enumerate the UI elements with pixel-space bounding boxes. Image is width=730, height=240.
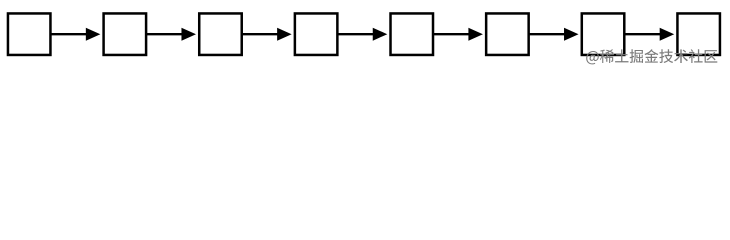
watermark glyph 术 [674, 49, 688, 63]
arrow 1 (box 1 to box 2) [51, 28, 101, 41]
box 3 [199, 13, 242, 55]
box 6 [486, 13, 529, 55]
watermark glyph 金 [644, 49, 658, 62]
box 7 [582, 13, 625, 55]
box 1 [8, 13, 51, 55]
arrow 5 (box 5 to box 6) [433, 28, 483, 41]
watermark glyph 土 [615, 49, 628, 62]
arrow 7 (box 7 to box 8) [625, 28, 675, 41]
watermark text "@稀土掘金技术社区" [586, 49, 717, 64]
arrow 2 (box 2 to box 3) [146, 28, 196, 41]
arrow 6 (box 6 to box 7) [529, 28, 579, 41]
box 2 [104, 13, 147, 55]
watermark glyph 社 [689, 49, 703, 63]
arrow 3 (box 3 to box 4) [242, 28, 292, 41]
box 5 [391, 13, 434, 55]
watermark glyph 稀 [600, 49, 614, 63]
watermark glyph 区 [705, 50, 718, 63]
watermark glyph 技 [659, 49, 673, 63]
watermark glyph @ [586, 51, 599, 64]
watermark glyph 掘 [630, 49, 643, 63]
box 4 [295, 13, 338, 55]
box 8 [677, 13, 720, 55]
arrow 4 (box 4 to box 5) [338, 28, 388, 41]
